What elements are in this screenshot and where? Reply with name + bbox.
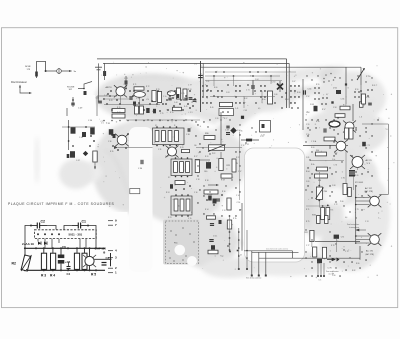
pcb trace curve 5 [255, 160, 275, 230]
dots at F1 pins [156, 126, 158, 128]
junction x361 [360, 90, 362, 92]
coil L2 dark oval [329, 121, 340, 127]
svg-text:R66: R66 [316, 150, 319, 152]
resistor R74 [220, 102, 233, 106]
svg-text:AC 70: AC 70 [366, 159, 373, 162]
svg-text:R68b: R68b [312, 215, 316, 217]
capacitor C8 [210, 224, 214, 226]
capacitor C49 [71, 103, 75, 105]
wire left cap lead 2 [202, 63, 204, 96]
wire V5 lead2 [356, 239, 370, 241]
pcb ghost blob right column f [354, 177, 390, 253]
wire V1 top lead [89, 248, 91, 256]
wire right dark bar [110, 253, 112, 266]
wire V5 down [359, 246, 361, 260]
wires x318-324 down [317, 261, 319, 275]
svg-text:R 74: R 74 [188, 89, 191, 91]
wire C49 lead [72, 97, 74, 107]
cap C51 blob [90, 128, 95, 135]
svg-text:C2: C2 [41, 219, 46, 223]
svg-text:5011 - 301: 5011 - 301 [69, 233, 83, 237]
pcb ghost blob right top speckled [319, 68, 341, 86]
coil L70 oval [134, 92, 146, 98]
svg-text:R 60: R 60 [214, 87, 217, 89]
svg-text:L 70: L 70 [146, 99, 149, 101]
arrowhead R46 down [94, 167, 96, 170]
cap C26 dark [241, 116, 244, 119]
cap blob 2 [219, 220, 222, 224]
svg-text:R 73: R 73 [156, 89, 159, 91]
wire R5a bottom [76, 268, 78, 271]
svg-text:C 9: C 9 [190, 112, 193, 114]
wire top bus upper riser [286, 59, 288, 108]
resistor in F2 c [186, 162, 190, 173]
gray block dashed outline [166, 221, 199, 264]
wire oval down [139, 97, 141, 106]
junction C49 [72, 99, 74, 101]
capacitor C62b [324, 128, 326, 132]
svg-text:R 66: R 66 [297, 92, 300, 94]
svg-text:C 14: C 14 [237, 202, 241, 204]
junction dots row y76 [213, 75, 215, 77]
white cutout left column near [62, 95, 95, 152]
junction C2 left [30, 225, 32, 227]
junction dots around V71 [112, 145, 114, 147]
resistor R46 [93, 151, 97, 162]
junction dots column x229 [229, 215, 231, 217]
resistor R18 [204, 190, 218, 194]
svg-text:C 80: C 80 [332, 275, 335, 277]
wire C14 down [241, 203, 243, 251]
capacitor C50 dark [71, 127, 76, 134]
wire bus y250.8 [244, 250, 292, 252]
svg-text:C 74: C 74 [365, 221, 368, 223]
junction rouge [83, 88, 85, 90]
diode D58 dark [314, 106, 318, 112]
svg-text:4,7k: 4,7k [168, 92, 171, 94]
svg-text:C 73: C 73 [136, 98, 139, 100]
coil L1 arrow line [241, 139, 259, 141]
svg-text:C 17: C 17 [238, 171, 241, 173]
pad x247 [246, 268, 248, 270]
wire column x247 [246, 230, 248, 268]
small marks left cluster [90, 135, 92, 137]
resistor small b [325, 216, 328, 224]
resistor R78 [135, 106, 139, 114]
wire V5 lead1 [356, 235, 370, 237]
svg-text:C 32: C 32 [165, 156, 168, 158]
wire x361 lower [360, 85, 362, 104]
cap C74 blob [133, 102, 136, 106]
white cutout big rounded area [245, 148, 305, 262]
pad bottom of riser [345, 83, 347, 85]
pcb trace curve 2 [110, 105, 225, 118]
capacitor C62 left [198, 75, 203, 77]
svg-text:AFY19: AFY19 [106, 86, 113, 89]
svg-text:C 77: C 77 [188, 85, 192, 87]
svg-text:R 57: R 57 [322, 109, 325, 111]
wire R5a top [76, 248, 78, 253]
wire bus drop 1 [251, 251, 253, 275]
small box on white band [130, 189, 140, 194]
svg-text:R 27: R 27 [194, 156, 197, 158]
capacitor C16 [216, 199, 220, 201]
resistor R10 [207, 216, 216, 219]
resistor in F1 d [175, 131, 179, 142]
resistor in F2 b [180, 162, 184, 173]
capacitor C4 [67, 266, 71, 268]
svg-text:R 23: R 23 [168, 217, 171, 219]
wire top bus lower [103, 62, 289, 64]
wire mid horiz y120 [126, 119, 200, 121]
antenna symbol [95, 67, 102, 70]
svg-text:P.22: P.22 [212, 153, 215, 155]
pad bus 3 [265, 275, 267, 277]
svg-text:IF: IF [174, 125, 175, 127]
pcb ghost blob right column c [294, 146, 378, 206]
svg-text:C 75: C 75 [181, 93, 184, 95]
svg-text:C 30: C 30 [186, 134, 190, 136]
svg-text:C 53: C 53 [308, 89, 312, 91]
svg-text:(AC 178): (AC 178) [366, 253, 375, 256]
resistor R62 [324, 137, 335, 141]
capacitor C38 dark [109, 129, 114, 135]
resistor in F1 a [155, 131, 159, 142]
junction left cluster [68, 126, 70, 128]
risers from dashed box [38, 239, 86, 249]
pcb trace curve 7 [210, 230, 330, 258]
capacitor C46 dark [70, 151, 75, 158]
resistor in F1 b [162, 131, 166, 142]
resistor R30 [204, 136, 215, 140]
junction below P64 [318, 200, 320, 202]
wire riser x346 [345, 67, 347, 84]
svg-text:R 76: R 76 [117, 107, 120, 109]
cap blob on riser [103, 71, 106, 76]
wire across y147 [196, 147, 242, 149]
resistor R5b [82, 253, 87, 269]
junction dots upper-left block [129, 90, 131, 92]
svg-text:R 7b: R 7b [233, 218, 236, 220]
wire R46 down [94, 162, 96, 169]
svg-text:R 59: R 59 [355, 89, 358, 91]
svg-text:R 71: R 71 [306, 209, 309, 211]
junction C1 right [87, 225, 89, 227]
svg-text:C 58: C 58 [333, 107, 336, 109]
svg-text:P 66: P 66 [340, 201, 344, 203]
svg-text:ROUGE: ROUGE [207, 194, 213, 196]
svg-text:C 64: C 64 [255, 79, 258, 81]
svg-text:R81: R81 [305, 232, 308, 234]
wire y241.6 [315, 241, 360, 243]
wire antenna down [98, 93, 100, 102]
gray block hole 2 [187, 256, 197, 266]
pcb trace curve 1 [120, 77, 240, 92]
svg-text:0,1: 0,1 [152, 111, 154, 113]
wire left cap lead [200, 61, 202, 112]
svg-text:C6: C6 [62, 245, 66, 249]
svg-text:R30: R30 [205, 133, 208, 135]
svg-text:R 80: R 80 [356, 263, 359, 265]
inductor L3 body [359, 102, 363, 108]
svg-text:C 18: C 18 [196, 179, 199, 181]
svg-text:R 22: R 22 [236, 157, 239, 159]
cap small right [368, 103, 372, 105]
svg-text:4,7: 4,7 [326, 94, 328, 96]
trimmer symbol [57, 69, 62, 74]
svg-text:Trap: Trap [220, 255, 223, 258]
pcb ghost blob right column e [320, 219, 380, 271]
svg-text:R 6b: R 6b [311, 164, 314, 166]
filter box F1 [153, 128, 185, 145]
resistor R17 [227, 198, 231, 210]
wire x353 down [352, 104, 354, 121]
component box V1 area [219, 109, 234, 116]
svg-text:R 64: R 64 [285, 99, 288, 101]
capacitor C73 [130, 96, 132, 100]
wire vertical x355.7 V4-V5 [355, 185, 357, 242]
transistor V70 AFY19 [114, 85, 127, 97]
pcb ghost blob below block [202, 258, 258, 278]
wire rouge lead [78, 82, 92, 89]
capacitor C72 [125, 80, 127, 84]
cap C75 blob [146, 108, 149, 113]
svg-text:AC 175: AC 175 [366, 250, 374, 253]
wire upper-left vert [96, 96, 98, 116]
resistor in F1 c [168, 131, 172, 142]
pcb ghost faint squiggle left re-add [35, 136, 40, 184]
svg-text:C 23: C 23 [260, 136, 263, 138]
transistor V71 [115, 134, 129, 147]
pin numbers column [108, 220, 113, 222]
diode D56 dark [336, 90, 341, 94]
svg-text:C 63: C 63 [226, 92, 229, 94]
extra pads center [197, 124, 198, 125]
svg-text:C4: C4 [67, 272, 71, 276]
cap dark bottom cluster [208, 196, 212, 201]
pcb ghost strip right edge [302, 163, 314, 227]
wire column x238.8 [238, 228, 240, 268]
wire to trimmer 3a [46, 70, 72, 72]
capacitor C78 [193, 100, 197, 102]
resistor R83 [322, 247, 326, 258]
wire top bus upper [97, 58, 287, 60]
resistor R31 [182, 149, 190, 152]
svg-text:C 70: C 70 [341, 178, 345, 180]
cap inside box [262, 124, 265, 128]
extra pads right column rows [333, 129, 334, 130]
wire right loop to V4 [379, 194, 388, 196]
svg-text:F 1: F 1 [155, 125, 157, 127]
wire V4 lead1 [356, 197, 370, 199]
svg-text:C 67: C 67 [292, 81, 295, 83]
wire V70 down [120, 96, 122, 105]
wire row y104.5 [104, 104, 160, 106]
svg-text:C 68: C 68 [332, 185, 335, 187]
electrolytic C5 C6 stack [58, 255, 65, 259]
svg-text:C 5: C 5 [319, 279, 322, 281]
white cutout left column far [3, 95, 63, 215]
svg-text:C 50: C 50 [88, 120, 92, 122]
cap dark bottom cluster 2 [213, 199, 217, 204]
gray block dark speckles [169, 257, 171, 259]
svg-text:P64: P64 [324, 191, 327, 193]
wire antenna riser [98, 63, 100, 93]
pcb trace curve 8 [300, 90, 375, 107]
wire right col x303 [302, 79, 304, 130]
resistor R69 [321, 208, 325, 220]
white cutout right of P64 [323, 187, 347, 205]
capacitor C71 [251, 86, 255, 88]
resistor in F3 b [180, 199, 184, 211]
cap dark pair [317, 259, 322, 264]
resistor R58 [335, 114, 345, 118]
wire bottom rail [24, 269, 105, 271]
wire upper-left horiz [97, 95, 117, 97]
svg-text:R 24: R 24 [166, 192, 169, 194]
dots row y120.5 [103, 120, 105, 122]
cap blob on NOIR wire [35, 72, 38, 77]
svg-text:R 7a: R 7a [170, 112, 173, 114]
junction dots lower rail [24, 269, 26, 271]
pcb ghost blob right column d [296, 193, 344, 237]
resistor R71b [348, 188, 352, 197]
cap C76b blob [153, 109, 156, 114]
wire x346 lower [345, 85, 347, 104]
svg-text:R 14: R 14 [205, 209, 208, 211]
wire bus y252.3 [252, 251, 299, 253]
capacitor C34 [141, 160, 143, 164]
svg-text:R2: R2 [12, 261, 17, 265]
svg-text:C 77: C 77 [306, 245, 309, 247]
wire bus drop 2 [258, 253, 260, 275]
svg-text:C 76: C 76 [334, 165, 338, 167]
white cutout top right corner [367, 29, 396, 61]
wire V5 lead3 [356, 242, 370, 244]
svg-text:R 20: R 20 [205, 156, 208, 158]
misc small caps upper-left [168, 98, 171, 100]
resistor R77 [112, 114, 125, 118]
junction right bar [110, 258, 112, 260]
svg-text:C 28: C 28 [225, 130, 229, 132]
resistor small a [317, 216, 320, 224]
capacitor C24 [226, 126, 229, 128]
white cutout tuning gang band [129, 127, 153, 272]
wire down from C49 [66, 108, 68, 116]
resistor R5a [74, 253, 79, 269]
svg-text:C 79: C 79 [345, 251, 348, 253]
wire left cluster horiz [62, 126, 95, 128]
electrolytic C70 dark striped [349, 170, 355, 177]
resistor R73 [157, 92, 161, 103]
wire across left [196, 159, 210, 161]
resistor R7c [177, 88, 181, 99]
resistor R22 [232, 159, 236, 172]
svg-text:C 15: C 15 [188, 218, 191, 220]
pad bus 1 [251, 275, 253, 277]
svg-text:C 41: C 41 [235, 108, 238, 110]
wire into V72 [118, 147, 153, 149]
capacitor C23 left [98, 101, 102, 103]
svg-text:C 69: C 69 [306, 181, 309, 183]
resistor R75 [268, 91, 273, 104]
cap C33 blob [170, 184, 173, 189]
resistor R21 [219, 159, 223, 171]
resistor R82 [313, 247, 317, 257]
svg-text:C 71: C 71 [246, 90, 250, 92]
pcb ghost blob left lower re-add [59, 159, 93, 189]
svg-text:C 7a: C 7a [163, 96, 166, 98]
arrow pair near text [356, 229, 366, 231]
svg-text:C 61: C 61 [206, 81, 209, 83]
svg-text:R 71: R 71 [133, 84, 136, 86]
svg-text:C 40: C 40 [206, 162, 209, 164]
arrowhead up [19, 85, 21, 88]
svg-text:R 6: R 6 [331, 210, 334, 212]
pcb ghost blob upper-center [173, 78, 263, 120]
wire C72 lead [125, 76, 127, 88]
svg-text:R 5: R 5 [91, 273, 96, 277]
potentiometer P64 [316, 187, 322, 200]
svg-text:L 3: L 3 [360, 117, 362, 119]
wire vertical x221 [220, 112, 222, 148]
svg-text:C 47: C 47 [76, 160, 80, 162]
capacitor C28 [226, 133, 230, 135]
wire thin row y76 [205, 75, 280, 77]
svg-text:F 2: F 2 [168, 177, 170, 179]
svg-text:C75: C75 [341, 237, 344, 239]
speckle dots in right blob [325, 74, 327, 76]
transistor V4 [368, 195, 382, 208]
wire V4 lead3 [356, 204, 370, 206]
capacitor C53 [304, 90, 306, 94]
svg-text:1k: 1k [191, 102, 193, 104]
resistor R56 [362, 94, 366, 104]
dashed box 5011-301 [34, 230, 96, 239]
white cutout below bus [205, 280, 396, 307]
svg-text:C 79: C 79 [160, 113, 163, 115]
svg-text:C 6c: C 6c [332, 159, 335, 161]
wire right loop top [362, 123, 388, 125]
pcb ghost blob left small [78, 162, 102, 182]
pcb ghost blob right column b [303, 108, 387, 156]
pcb ghost blob center 3 [178, 130, 248, 194]
svg-text:C 26: C 26 [215, 118, 218, 120]
pcb trace curve 6 [310, 150, 334, 215]
junction dots on x238 column [238, 231, 240, 233]
wire second bus to P70 [201, 66, 362, 68]
svg-text:C 6: C 6 [194, 64, 197, 66]
transistor V73 [334, 140, 348, 153]
svg-text:C 9: C 9 [101, 121, 104, 123]
wire R2 top lead [24, 248, 26, 256]
resistor R32 [175, 181, 185, 185]
extra pads upper-center [249, 71, 250, 72]
resistor R76 [112, 109, 125, 113]
svg-text:R 45: R 45 [184, 106, 187, 108]
resistor R70 [343, 184, 347, 195]
svg-text:R 16: R 16 [222, 191, 225, 193]
wire mesh right column [318, 172, 320, 186]
wire C71 vertical [252, 80, 254, 95]
wire P70 riser [360, 67, 362, 85]
transistor V3 [350, 155, 365, 169]
dots inside dashed box [37, 233, 39, 235]
svg-text:C 72: C 72 [334, 204, 337, 206]
svg-text:C40: C40 [204, 171, 207, 173]
transistor V1 AF126 [83, 255, 96, 267]
transistor V5 [368, 233, 382, 246]
